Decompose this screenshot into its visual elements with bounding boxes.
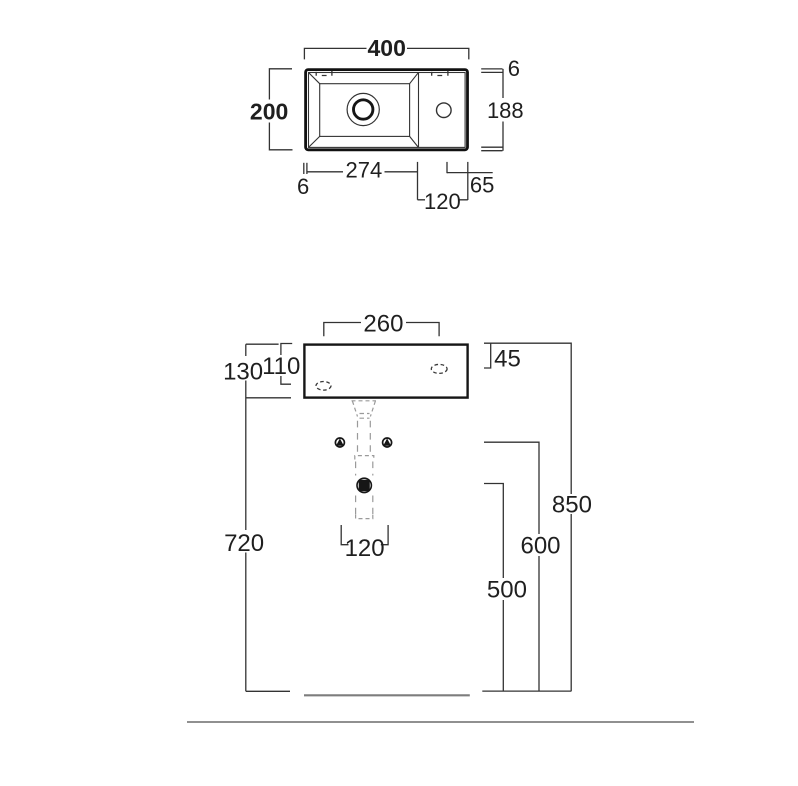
hidden hole right (dashed ellipse) [431,364,447,373]
bottom datum connector line [482,690,571,692]
dashed waste pipe: top flange [352,400,377,402]
basin inner rect [320,84,410,137]
dashed waste pipe: bottom end [356,515,373,519]
dimension 188 line [481,69,503,151]
svg-text:850: 850 [552,492,592,519]
basin separator line [418,73,420,148]
dimension 110 bracket [281,344,292,385]
drain outer circle [347,93,379,125]
svg-text:130: 130 [223,359,263,386]
hidden overflow slot (dashed, basin) [316,71,332,76]
dashed waste pipe: joint double dash [360,414,370,419]
svg-text:110: 110 [262,353,300,380]
svg-text:120: 120 [424,189,461,214]
basin bevel bottom-left [309,136,320,147]
page separator line (gray) [187,721,694,723]
basin bevel top-right [409,73,418,84]
basin bevel bottom-right [409,136,418,147]
dimension 400 line [304,48,468,59]
floor line under sink (gray) [304,694,470,696]
hidden hole left (dashed ellipse) [316,382,331,391]
dashed waste pipe: lower body [356,462,373,516]
dimension 274 line [308,171,418,173]
dashed waste pipe: tailpiece left taper [352,401,357,417]
dimension 6 (bottom left) double ticks [304,163,307,174]
svg-text:260: 260 [363,310,403,337]
drain ring [354,100,373,119]
dimension 6 (rim, right top) double lines [481,69,502,73]
svg-text:600: 600 [520,533,560,560]
svg-text:500: 500 [487,577,527,604]
svg-text:274: 274 [346,157,383,182]
dimension 600 line [484,442,539,691]
svg-text:400: 400 [368,35,406,61]
dimension 65 line [447,172,493,174]
dimension 260 line [324,323,439,337]
svg-text:6: 6 [508,56,520,81]
dimension 500 line [484,484,503,692]
sink inner rim line (top view) [309,73,466,148]
svg-text:65: 65 [470,173,494,198]
dashed waste pipe: coupling [355,456,374,460]
fixing bolt left [335,438,344,447]
dimension 45 bracket [484,343,491,368]
dimension 850 line [491,343,572,691]
svg-text:188: 188 [487,98,524,123]
dashed waste pipe: upper body [358,421,371,454]
sink outer rim rect (top view) [306,70,468,150]
dimension 120 (front) bracket [341,525,388,545]
waste outlet circle [357,478,371,492]
basin bevel top-left [309,73,320,84]
svg-text:120: 120 [345,535,385,562]
svg-text:6: 6 [297,174,309,199]
sink front rect [304,345,467,398]
svg-text:720: 720 [224,530,264,557]
dimension 200 line [269,69,292,150]
dimension 120 (top view) bracket [418,199,468,201]
svg-text:45: 45 [494,346,521,373]
extension line basin-right [417,162,419,200]
waste outlet square [359,480,370,492]
extension line tap-center [446,162,448,173]
hidden fixing slot (dashed, deck) [432,71,448,76]
svg-text:200: 200 [250,99,288,125]
extension line sink-right [467,162,469,200]
left vertical dimension line (130/720) [246,344,291,691]
dashed waste pipe: tailpiece right taper [370,401,375,417]
fixing bolt right [383,438,392,447]
tap hole circle [437,103,452,118]
